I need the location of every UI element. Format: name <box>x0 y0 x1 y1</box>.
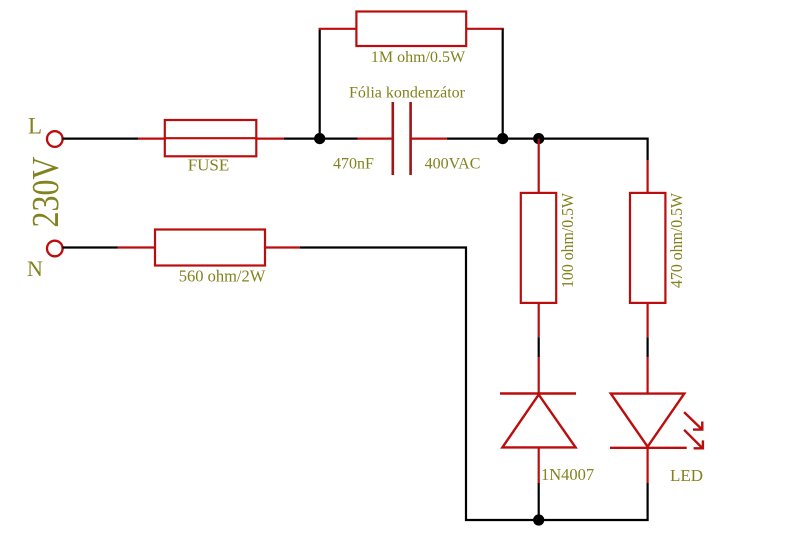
svg-text:230V: 230V <box>25 156 67 227</box>
resistor R1 left lead <box>319 28 357 30</box>
svg-text:100 ohm/0.5W: 100 ohm/0.5W <box>558 193 577 288</box>
capacitor C1 right plate <box>409 102 412 175</box>
LED anode lead <box>646 357 648 394</box>
resistor R2 560 ohm <box>155 230 265 266</box>
node D bottom junction <box>533 514 544 525</box>
diode D1 cathode bar <box>500 392 576 394</box>
resistor R2 left lead <box>118 246 156 248</box>
svg-text:N: N <box>27 256 43 281</box>
capacitor C1 left plate <box>391 102 394 175</box>
LED arrow 1 <box>684 412 702 430</box>
wire capacitor to node B <box>447 138 503 140</box>
wire R2 to bottom rail <box>300 248 539 521</box>
wire fuse to node A <box>284 138 320 140</box>
terminal L <box>47 131 63 147</box>
svg-text:L: L <box>28 114 42 139</box>
wire node C to LED branch corner <box>539 139 648 161</box>
diode D1 cathode lead <box>538 357 540 394</box>
resistor R3 100 ohm <box>521 193 556 303</box>
resistor R4 470 ohm <box>630 193 665 303</box>
svg-text:1M ohm/0.5W: 1M ohm/0.5W <box>371 49 466 66</box>
wire D1 to bottom junction <box>538 483 540 520</box>
terminal N <box>47 241 63 257</box>
LED D2 triangle <box>611 394 685 447</box>
svg-text:FUSE: FUSE <box>188 156 230 175</box>
svg-text:400VAC: 400VAC <box>425 156 481 173</box>
wire R3 to D1 <box>538 337 540 357</box>
diode D1 1N4007 triangle <box>502 395 575 448</box>
fuse left lead <box>138 138 165 140</box>
resistor R3 top lead <box>538 139 540 193</box>
LED D2 cathode bar <box>610 447 687 449</box>
resistor R1 right lead <box>466 28 504 30</box>
wire right riser from R1 <box>502 29 504 139</box>
diode D1 anode lead <box>538 447 540 483</box>
svg-text:LED: LED <box>670 466 703 485</box>
fuse FUSE <box>165 120 256 156</box>
svg-text:Fólia kondenzátor: Fólia kondenzátor <box>349 85 466 102</box>
resistor R1 1M <box>356 12 466 47</box>
wire LED to bottom rail <box>539 483 648 520</box>
wire R4 to LED <box>646 337 648 357</box>
resistor R4 bottom lead <box>646 303 648 337</box>
node A junction <box>314 133 325 144</box>
resistor R2 right lead <box>265 246 300 248</box>
wire N terminal to R2 <box>62 246 117 248</box>
wire left riser to R1 <box>319 29 321 139</box>
svg-text:470 ohm/0.5W: 470 ohm/0.5W <box>667 193 686 288</box>
LED cathode lead <box>646 448 648 483</box>
svg-text:560 ohm/2W: 560 ohm/2W <box>179 267 266 286</box>
svg-text:1N4007: 1N4007 <box>541 465 594 484</box>
node B junction <box>497 133 508 144</box>
resistor R3 bottom lead <box>538 303 540 337</box>
wire node B to node C <box>503 138 539 140</box>
node C junction <box>533 133 544 144</box>
resistor R4 top lead <box>646 160 648 193</box>
svg-text:470nF: 470nF <box>333 156 374 173</box>
fuse right lead <box>256 138 284 140</box>
wire node A to capacitor <box>320 138 358 140</box>
wire L terminal to fuse <box>62 138 138 140</box>
capacitor right lead <box>411 138 447 140</box>
capacitor left lead <box>358 138 393 140</box>
LED arrow 2 <box>684 430 703 449</box>
